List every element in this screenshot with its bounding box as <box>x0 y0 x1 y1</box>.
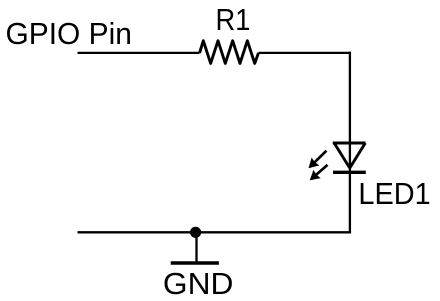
svg-text:LED1: LED1 <box>358 176 430 211</box>
resistor R1 <box>200 41 259 64</box>
svg-text:GPIO Pin: GPIO Pin <box>6 16 132 51</box>
svg-text:R1: R1 <box>216 2 251 37</box>
LED1 anode triangle top edge <box>333 142 366 145</box>
LED1 anode triangle left side <box>334 143 350 168</box>
LED1 light arrow (upper) <box>309 151 327 169</box>
ground stub wire <box>195 232 197 262</box>
svg-text:GND: GND <box>163 266 234 301</box>
wire: bottom ground rail <box>78 231 352 233</box>
LED1 anode triangle right side <box>350 143 366 168</box>
LED1 cathode bar <box>333 171 366 174</box>
wire: right vertical rail (corner down through LED1 to bottom rail) <box>349 52 351 234</box>
wire: GPIO pin to resistor R1 left lead <box>78 52 200 54</box>
junction dot <box>190 227 201 238</box>
LED1 light arrow (lower) <box>310 165 328 181</box>
wire: resistor R1 right lead to top-right corner <box>259 52 352 54</box>
ground bar <box>171 261 219 264</box>
